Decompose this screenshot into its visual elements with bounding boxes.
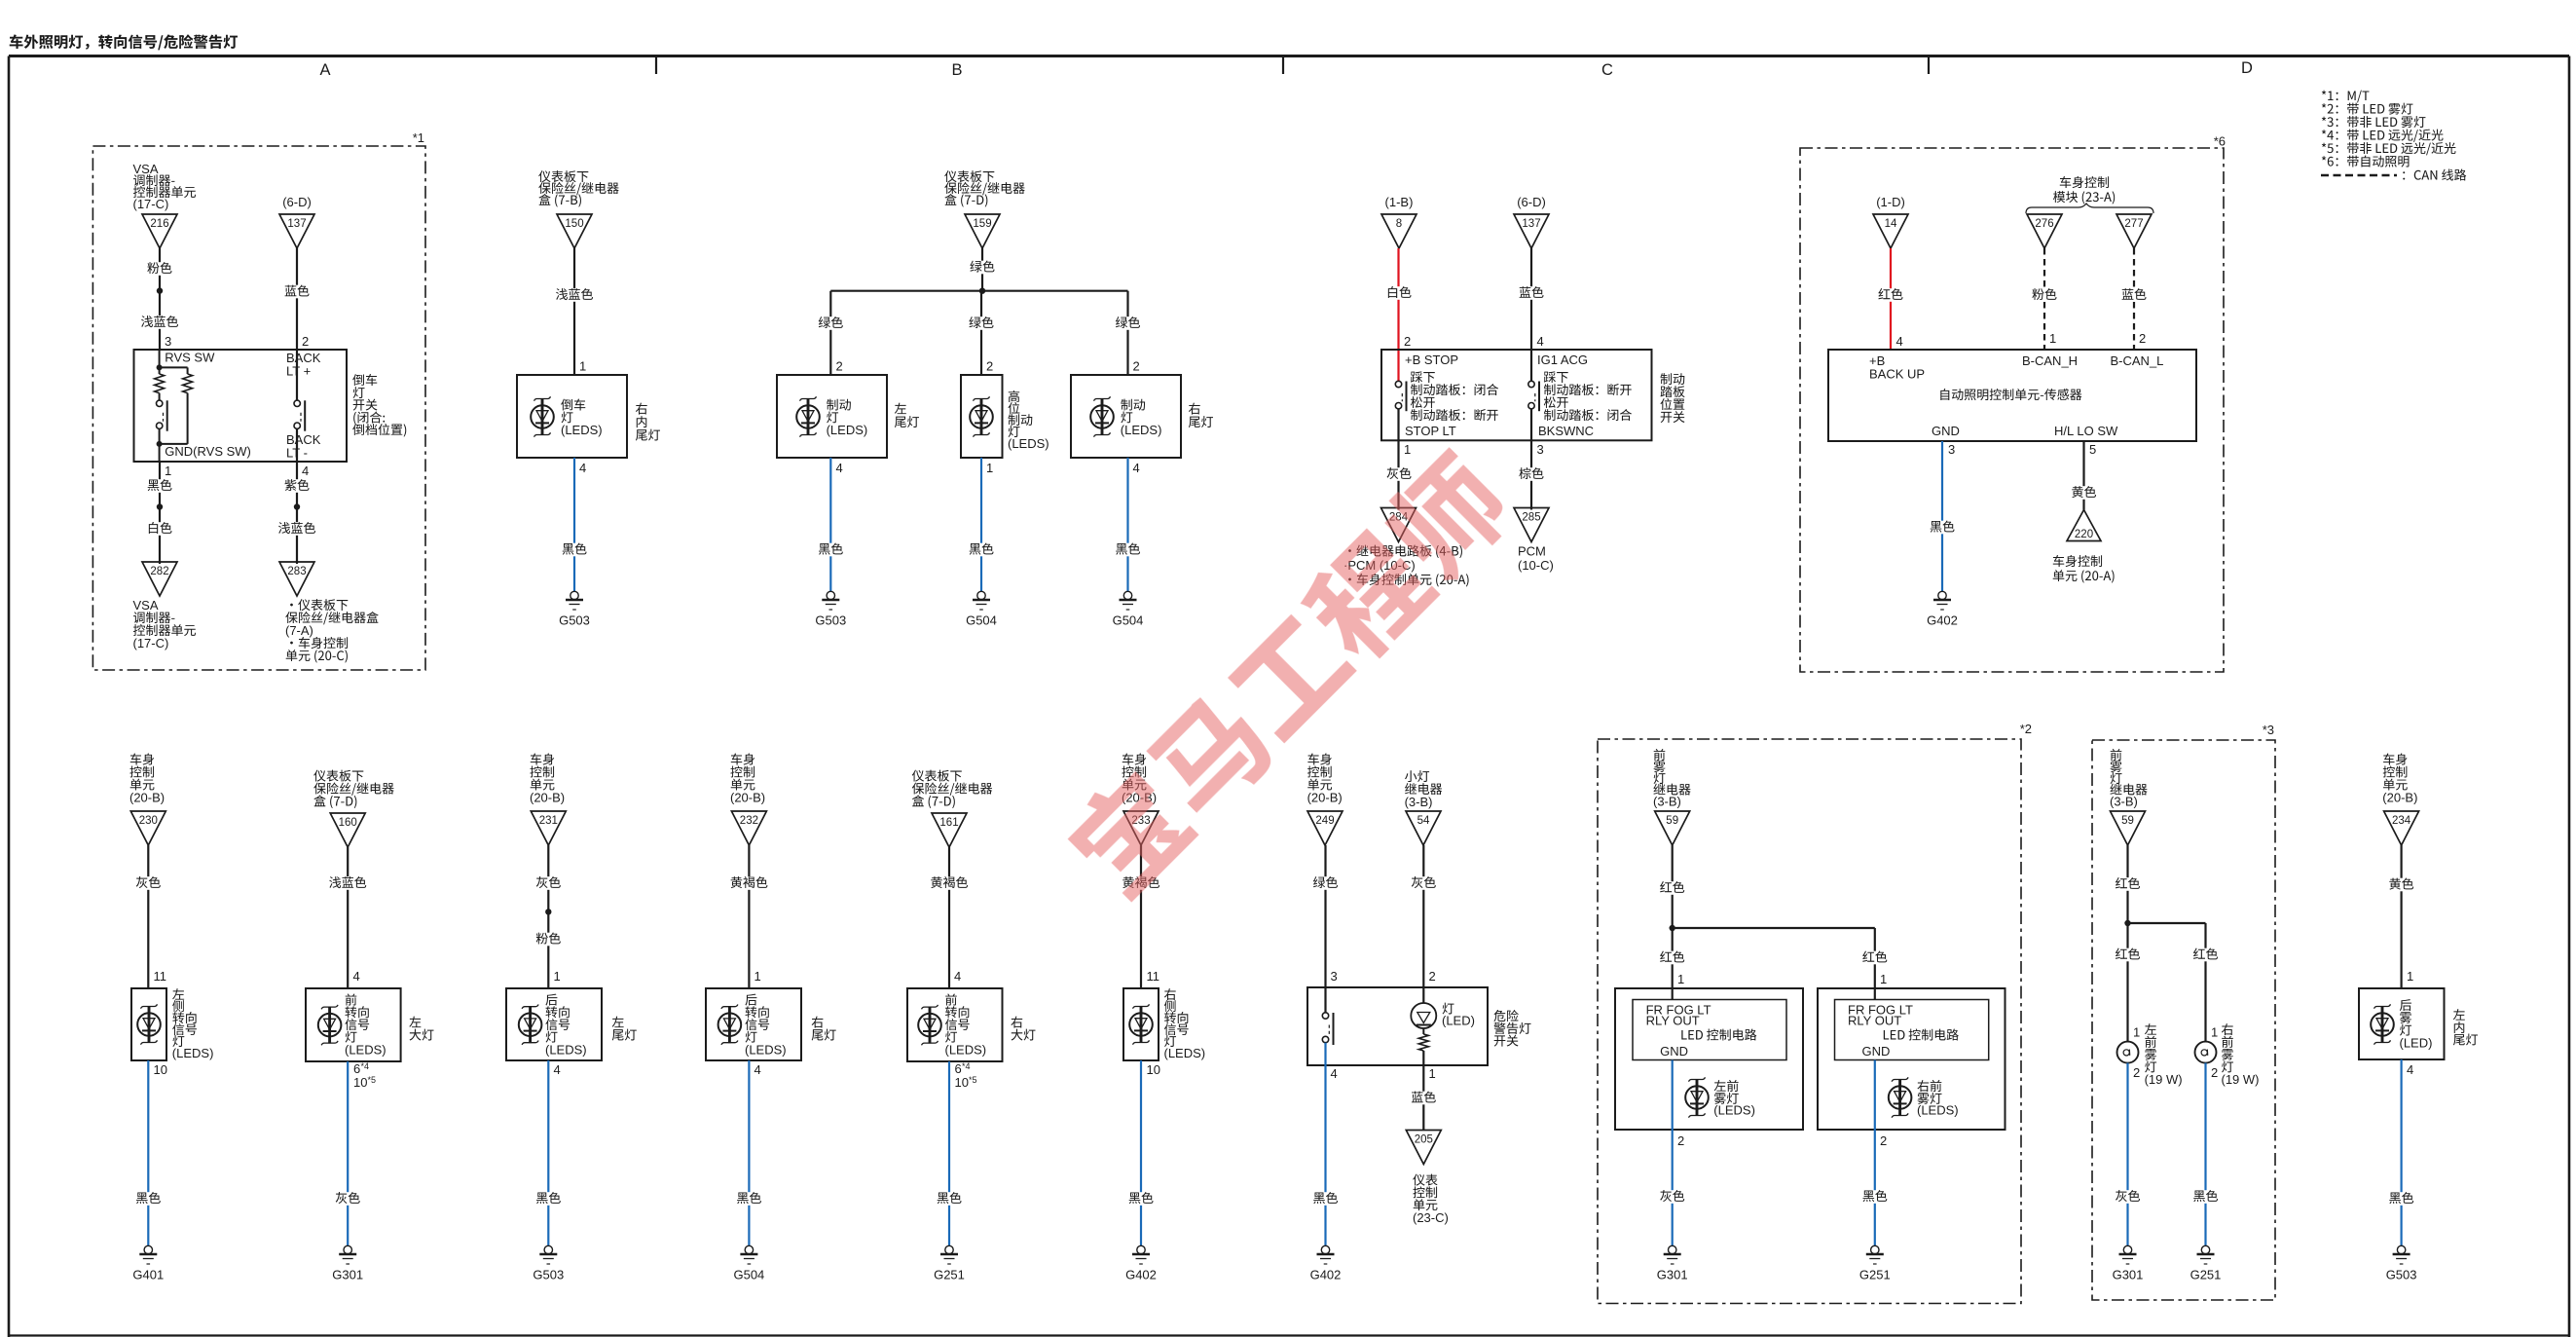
svg-text:2: 2 (1677, 1133, 1684, 1148)
svg-text:(19 W): (19 W) (2145, 1072, 2183, 1087)
svg-text:5: 5 (2089, 442, 2096, 457)
svg-text:*4: *4 (962, 1061, 971, 1071)
wire color label 红色 (1860, 951, 1890, 965)
wire color label 黑色 (935, 1192, 964, 1206)
wire color label 白色 (1384, 286, 1414, 300)
right side turn signal light (LEDS) box (1123, 988, 1205, 1060)
svg-text:(LEDS): (LEDS) (1164, 1046, 1206, 1060)
svg-text:(3-B): (3-B) (1653, 795, 1681, 809)
dashed option box *6 (with auto lighting) (1800, 148, 2224, 672)
svg-text:G401: G401 (132, 1268, 164, 1282)
wire color label 蓝色 (1517, 286, 1546, 300)
wire color label 黑色 (2191, 1190, 2221, 1204)
switch contacts BACK LT (294, 350, 305, 462)
wire branch horizontal (2128, 923, 2206, 1042)
switch contacts RVS SW (157, 393, 188, 462)
wire color label 灰色 (333, 1192, 362, 1206)
ground G503 (815, 591, 846, 627)
svg-text:(3-B): (3-B) (1405, 795, 1433, 809)
svg-text:137: 137 (287, 218, 306, 230)
pin 3 (1537, 442, 1544, 457)
switch contacts BKSWNC (1528, 381, 1539, 411)
wire color label 紫色 (282, 479, 312, 493)
wire pink/light-blue from connector 216 to RVS SW pin 3 (159, 248, 161, 350)
pin 2 (1429, 969, 1436, 984)
svg-text:205: 205 (1415, 1133, 1433, 1145)
pin 4 (1331, 1066, 1338, 1081)
pin 2 (1404, 334, 1411, 349)
front turn signal light (LEDS) box, left headlight (306, 988, 434, 1061)
wire black to ground G402 (1140, 1060, 1142, 1245)
wire tan from connector 233 to pin 11 (1140, 845, 1142, 988)
connector 282 to VSA modulator-control unit (17-C) (133, 562, 196, 650)
wire color label 红色 (1658, 951, 1687, 965)
label 危险警告灯开关 (1493, 1010, 1530, 1047)
svg-text:+B STOP: +B STOP (1405, 353, 1458, 367)
wire black (blue drawn) from back-up light to ground G503 (573, 458, 575, 591)
svg-text:4: 4 (554, 1062, 561, 1077)
wire color label 绿色 (1311, 876, 1341, 890)
svg-text:276: 276 (2035, 218, 2053, 230)
svg-text:1: 1 (1677, 972, 1684, 986)
wire green to right brake light pin 2 (1126, 291, 1128, 375)
svg-text:G301: G301 (2113, 1268, 2144, 1282)
svg-text:B-CAN_L: B-CAN_L (2111, 353, 2164, 368)
wire white (red drawn) from connector 8 to +B STOP pin 2 (1397, 248, 1399, 381)
junction of fog light feed (2124, 920, 2130, 926)
connector 159 from under-dash fuse/relay box (7-D) (944, 170, 1024, 248)
wire black to ground G504 (1126, 458, 1128, 591)
svg-text:(LEDS): (LEDS) (745, 1042, 787, 1057)
svg-text:G251: G251 (934, 1268, 965, 1282)
wire color label 绿色 (968, 261, 997, 275)
svg-text:G301: G301 (332, 1268, 363, 1282)
svg-text:GND: GND (1932, 424, 1960, 438)
wire color label 灰色 (1384, 467, 1414, 481)
left front fog light LED (1685, 1077, 1755, 1117)
svg-text:*2: *2 (2020, 722, 2032, 736)
svg-text:*3: *3 (2263, 723, 2274, 737)
svg-text:161: 161 (939, 817, 958, 829)
connector 150 from under-dash fuse/relay box (7-B) (538, 170, 618, 248)
ground G504 (733, 1245, 764, 1281)
pin 1 (1429, 1066, 1436, 1081)
svg-text:4: 4 (1331, 1066, 1338, 1081)
wire black to ground G503 (547, 1060, 549, 1245)
wire green to left brake light pin 2 (829, 291, 831, 375)
pin 2 (2211, 1065, 2218, 1080)
wire color label 黑色 (133, 1192, 163, 1206)
wire purple/light-blue from BACK LT - pin 4 to connector 283 (296, 462, 298, 564)
reverse light switch box (134, 350, 348, 462)
junction on wire 283 (294, 503, 300, 509)
svg-text:IG1 ACG: IG1 ACG (1537, 353, 1588, 367)
wire color label 红色 (2114, 948, 2143, 962)
wire color label 白色 (145, 522, 174, 536)
rear fog light (LED) box, left inner taillight (2359, 988, 2478, 1059)
pin 6*4 / 10*5 (955, 1061, 977, 1090)
svg-text:BKSWNC: BKSWNC (1538, 424, 1594, 438)
svg-text:(LEDS): (LEDS) (561, 423, 603, 437)
svg-text:4: 4 (2407, 1062, 2413, 1077)
wire color label 粉色 (534, 933, 563, 947)
svg-text:1: 1 (579, 359, 586, 374)
svg-text:(LED): (LED) (1442, 1014, 1475, 1028)
connector 137 (6-D) (279, 195, 314, 248)
right front fog light unit box (1818, 988, 2006, 1130)
svg-text:1: 1 (1429, 1066, 1436, 1081)
svg-text:(7-A): (7-A) (285, 623, 313, 638)
svg-text:G504: G504 (733, 1268, 764, 1282)
ground G504 (1113, 591, 1144, 627)
junction on wire 231 (545, 909, 551, 914)
svg-text:4: 4 (754, 1062, 761, 1077)
svg-text:(LEDS): (LEDS) (1121, 423, 1162, 437)
pin 2 (302, 334, 309, 349)
wire gray from left fog bulb to ground G301 (2126, 1063, 2128, 1246)
wire green from connector 249 to pin 3 (1324, 845, 1326, 1013)
wire color label 黑色 (734, 1192, 763, 1206)
svg-text:(20-B): (20-B) (1307, 791, 1343, 805)
resistor in RVS SW branch 1 (155, 374, 165, 393)
column label A (319, 61, 330, 79)
column label B (951, 61, 962, 79)
watermark 宝马工程师 (1058, 443, 1521, 906)
wire gray/pink from connector 231 to pin 1 (547, 845, 549, 988)
svg-text:2: 2 (2211, 1065, 2218, 1080)
svg-text:6: 6 (353, 1061, 360, 1076)
label 倒车灯开关(闭合:倒档位置) (352, 374, 406, 437)
wire color label 红色 (2191, 948, 2221, 962)
svg-text:G301: G301 (1657, 1268, 1688, 1282)
svg-text:(19 W): (19 W) (2222, 1072, 2260, 1087)
auto lighting control unit-sensor box (1828, 350, 2196, 441)
wire light-blue from connector 150 to back-up light pin 1 (573, 248, 575, 375)
svg-text:11: 11 (1147, 969, 1160, 984)
svg-text:4: 4 (302, 464, 309, 478)
wire color label 浅蓝色 (554, 288, 596, 302)
svg-text:2: 2 (1404, 334, 1411, 349)
wire gray from connector 230 to pin 11 (147, 845, 149, 988)
pin 1 (2133, 1025, 2140, 1040)
wire color label 黄褐色 (929, 876, 971, 890)
pin 4 (1537, 334, 1544, 349)
wire color label 蓝色 (2119, 288, 2149, 302)
wire black from hazard switch pin 4 to ground G402 (1324, 1043, 1326, 1245)
svg-text:1: 1 (554, 969, 561, 984)
svg-text:277: 277 (2124, 218, 2143, 230)
connector 161 from under-dash fuse/relay box (7-D) (912, 770, 992, 847)
connector 220 to body control unit (20-A) (2053, 510, 2115, 583)
pin 2 (2133, 1065, 2140, 1080)
ground G402 (1927, 591, 1958, 627)
svg-text:(3-B): (3-B) (2110, 795, 2138, 809)
pin 3 (1331, 969, 1338, 984)
svg-text:2: 2 (2139, 331, 2146, 346)
svg-text:3: 3 (1331, 969, 1338, 984)
left front fog light unit box (1615, 988, 1803, 1130)
connector 59 from front fog light relay (3-B) (1653, 749, 1691, 845)
pin 3 (165, 334, 171, 349)
wire color label 黄色 (2387, 878, 2416, 892)
pin 5 (2089, 442, 2096, 457)
wire color label 黄褐色 (728, 876, 770, 890)
svg-text:285: 285 (1522, 511, 1540, 523)
svg-text:59: 59 (2121, 815, 2134, 827)
svg-text:GND: GND (1862, 1044, 1891, 1058)
rear turn signal light (LEDS) box, right taillight (706, 988, 836, 1060)
svg-text:*5: *5 (368, 1075, 377, 1085)
pin 2 (1677, 1133, 1684, 1148)
right front fog light bulb (19 W) (2195, 1023, 2260, 1087)
svg-text:RLY OUT: RLY OUT (1848, 1014, 1901, 1028)
svg-text:C: C (1601, 61, 1613, 79)
svg-text:159: 159 (973, 218, 991, 230)
wire red from connector 59 to junction (2126, 845, 2128, 923)
wire color label 黑色 (560, 543, 589, 557)
svg-text:150: 150 (565, 218, 583, 230)
svg-text:6: 6 (955, 1061, 962, 1076)
junction of fog light feed (1670, 925, 1675, 931)
pin 1 (2049, 331, 2056, 346)
svg-text:GND: GND (1660, 1044, 1688, 1058)
wire color label 黑色 (1311, 1192, 1341, 1206)
column label C (1601, 61, 1613, 79)
svg-text:54: 54 (1417, 815, 1430, 827)
wire black (blue drawn) from GND pin 3 to ground G402 (1941, 441, 1943, 591)
svg-text:(LEDS): (LEDS) (345, 1042, 386, 1057)
svg-text:STOP LT: STOP LT (1405, 424, 1456, 438)
wire color label 绿色 (967, 316, 996, 330)
wire tan from connector 232 to pin 1 (748, 845, 750, 988)
wire color label 粉色 (145, 262, 174, 276)
connector 137 (6-D) (1514, 195, 1549, 248)
svg-text:3: 3 (165, 334, 171, 349)
pin 6*4 / 10*5 (353, 1061, 376, 1090)
svg-text:(20-B): (20-B) (2382, 791, 2417, 805)
pin 2 (836, 359, 843, 374)
svg-text:(10-C): (10-C) (1518, 558, 1554, 573)
wire color label 绿色 (816, 316, 845, 330)
svg-text:VSA: VSA (133, 162, 159, 176)
connector 284 to relay circuit board, PCM, body control unit (1343, 508, 1469, 587)
svg-text:(20-B): (20-B) (129, 791, 165, 805)
resistor in hazard switch (1418, 1028, 1428, 1065)
connector 283 to under-dash fuse/relay box and body control unit (279, 562, 379, 663)
wire black from right fog unit GND to ground G251 (1874, 1060, 1876, 1246)
wire branch horizontal (1673, 928, 1875, 1000)
svg-text:1: 1 (2133, 1025, 2140, 1040)
svg-text:8: 8 (1396, 218, 1402, 230)
svg-text:(20-B): (20-B) (730, 791, 765, 805)
wire color label 黑色 (816, 543, 845, 557)
svg-text:2: 2 (1880, 1133, 1887, 1148)
svg-text:(LEDS): (LEDS) (1713, 1103, 1755, 1118)
svg-text:G402: G402 (1927, 613, 1958, 628)
svg-text:14: 14 (1885, 218, 1897, 230)
column label D (2241, 59, 2253, 77)
wire gray to ground G301 (347, 1061, 349, 1245)
svg-text:(20-B): (20-B) (530, 791, 565, 805)
junction on wire 216 (157, 287, 163, 293)
pin 2 (986, 359, 993, 374)
svg-text:4: 4 (353, 969, 360, 984)
wire light-blue from connector 160 to pin 4 (347, 847, 349, 988)
svg-text:2: 2 (836, 359, 843, 374)
wire color label 红色 (1876, 288, 1905, 302)
ground G504 (966, 591, 997, 627)
pin 1 (2407, 969, 2413, 984)
pin 1 (986, 461, 993, 475)
connector 8 (1-B) (1381, 195, 1417, 248)
wire green to high mount brake light pin 2 (980, 291, 982, 375)
connector 276 (B-CAN_H) (2027, 214, 2062, 248)
ground G251 (1859, 1245, 1891, 1281)
svg-text:G251: G251 (2190, 1268, 2222, 1282)
wire red from connector 59 to junction (1672, 845, 1674, 928)
svg-text:160: 160 (339, 817, 357, 829)
svg-text:(1-D): (1-D) (1876, 195, 1905, 209)
connector 14 (1-D) (1873, 195, 1908, 248)
svg-text:(17-C): (17-C) (133, 636, 169, 650)
wire branch horizontal (830, 290, 1127, 292)
front turn signal light (LEDS) box, right headlight (907, 988, 1036, 1061)
pin 10 (1147, 1062, 1160, 1077)
pin 10 (154, 1062, 167, 1077)
ground G503 (533, 1245, 564, 1281)
pin 1 (1404, 442, 1411, 457)
wire color label 黑色 (1860, 1190, 1890, 1204)
svg-text:(LEDS): (LEDS) (1008, 436, 1049, 451)
legend notes *1-*6 and CAN line key (2321, 91, 2466, 181)
dashed option box *1 (M/T) (92, 146, 425, 670)
connector 59 from front fog light relay (3-B) (2110, 749, 2148, 845)
connector 233 from body control unit (20-B) (1122, 754, 1159, 845)
label *6 (2214, 134, 2226, 149)
svg-text:2: 2 (302, 334, 309, 349)
pin 1 (579, 359, 586, 374)
ground G301 (332, 1245, 363, 1281)
svg-text:4: 4 (1896, 334, 1903, 349)
wire color label 黑色 (534, 1192, 563, 1206)
connector 277 (B-CAN_L) (2116, 214, 2152, 248)
wire black to ground G504 (980, 458, 982, 591)
pin 1 (2211, 1025, 2218, 1040)
svg-text:G504: G504 (1113, 613, 1144, 628)
svg-text:G504: G504 (966, 613, 997, 628)
svg-text:(6-D): (6-D) (282, 195, 312, 209)
svg-text:1: 1 (986, 461, 993, 475)
svg-text:2: 2 (1133, 359, 1140, 374)
wire color label 灰色 (1658, 1190, 1687, 1204)
svg-text:59: 59 (1666, 815, 1678, 827)
wire blue from connector 137 to BACK LT + pin 2 (296, 248, 298, 350)
wire blue from connector 137 to IG1 ACG pin 4 (1530, 248, 1532, 381)
back-up light (LEDS) box, right inner taillight (517, 375, 660, 458)
svg-text:1: 1 (1404, 442, 1411, 457)
svg-text:PCM: PCM (1518, 544, 1546, 559)
svg-text:4: 4 (836, 461, 843, 475)
wire black to ground G503 (2401, 1059, 2403, 1245)
pin 1 (754, 969, 761, 984)
switch contacts STOP LT (1395, 381, 1406, 411)
wire color label 黑色 (1928, 521, 1957, 535)
svg-text:1: 1 (2211, 1025, 2218, 1040)
wire gray from STOP LT pin 1 to connector 284 (1397, 409, 1399, 510)
connector 234 from body control unit (20-B) (2382, 754, 2418, 845)
ground G503 (559, 591, 590, 627)
rear turn signal light (LEDS) box, left taillight (506, 988, 637, 1060)
svg-text:4: 4 (579, 461, 586, 475)
pin 4 (353, 969, 360, 984)
wire color label 蓝色 (1409, 1092, 1438, 1105)
pin 2 (1133, 359, 1140, 374)
svg-text:2: 2 (986, 359, 993, 374)
wire brown from BKSWNC pin 3 to connector 285 (1530, 409, 1532, 510)
svg-text:*5: *5 (969, 1075, 977, 1085)
brake light (LEDS) box, right taillight (1071, 375, 1213, 458)
wire color label 浅蓝色 (327, 876, 369, 890)
svg-text:(17-C): (17-C) (133, 197, 169, 211)
wire color label 灰色 (2114, 1190, 2143, 1204)
wire color label 灰色 (133, 876, 163, 890)
wire gray from left fog unit GND to ground G301 (1672, 1060, 1674, 1246)
wire color label 红色 (2114, 877, 2143, 891)
wire black from right fog bulb to ground G251 (2204, 1063, 2206, 1246)
svg-text:282: 282 (150, 566, 168, 577)
svg-text:BACK UP: BACK UP (1869, 367, 1925, 382)
svg-text:B-CAN_H: B-CAN_H (2022, 353, 2078, 368)
wire color label 黑色 (1126, 1192, 1156, 1206)
connector 230 from body control unit (20-B) (129, 754, 166, 845)
wire red from connector 14 to +B BACK UP pin 4 (1890, 248, 1892, 350)
svg-text:1: 1 (754, 969, 761, 984)
svg-text:231: 231 (539, 815, 558, 827)
pin 11 (1147, 969, 1160, 984)
svg-text:10: 10 (353, 1075, 367, 1090)
svg-text:(LEDS): (LEDS) (827, 423, 868, 437)
svg-text:1: 1 (1880, 972, 1887, 986)
wire color label 蓝色 (282, 285, 312, 299)
wire color label 黄褐色 (1121, 876, 1162, 890)
svg-text:4: 4 (1537, 334, 1544, 349)
connector 54 from small light relay (3-B) (1405, 770, 1443, 845)
pin 2 (2139, 331, 2146, 346)
svg-text:G402: G402 (1125, 1268, 1157, 1282)
svg-text:(LEDS): (LEDS) (172, 1046, 214, 1060)
right front fog light LED (1889, 1077, 1959, 1117)
svg-text:3: 3 (1948, 442, 1955, 457)
svg-text:(LEDS): (LEDS) (945, 1042, 987, 1057)
CAN wire dashed blue to B-CAN_L pin 2 (2133, 248, 2135, 350)
svg-text:*1: *1 (413, 130, 424, 145)
svg-text:232: 232 (740, 815, 758, 827)
svg-text:G503: G503 (559, 613, 590, 628)
svg-text:283: 283 (287, 566, 306, 577)
title 车外照明灯，转向信号/危险警告灯 (10, 34, 238, 50)
svg-text:1: 1 (165, 464, 171, 478)
wire color label 红色 (1658, 881, 1687, 895)
pin 1 (1677, 972, 1684, 986)
brake light (LEDS) box, left taillight (777, 375, 919, 458)
wire color label 浅蓝色 (139, 316, 181, 329)
wire blue from hazard switch pin 1 to connector 205 (1422, 1065, 1424, 1131)
body control module (23-A) label with brace (2026, 176, 2153, 213)
ground G402 (1310, 1245, 1342, 1281)
svg-text:10: 10 (955, 1075, 969, 1090)
wire gray from connector 54 to pin 2 (1422, 845, 1424, 1003)
wire color label 粉色 (2030, 288, 2059, 302)
